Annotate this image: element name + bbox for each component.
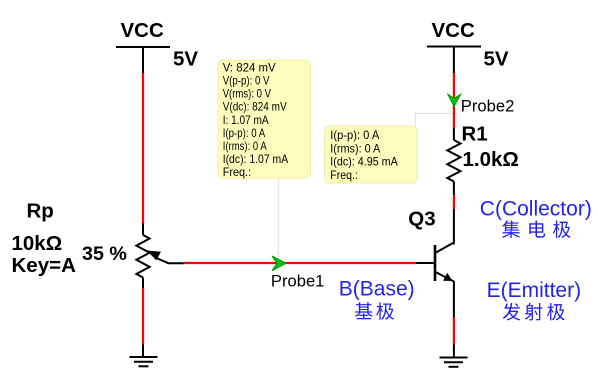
svg-text:V(p-p): 0 V: V(p-p): 0 V — [223, 75, 270, 88]
svg-text:I(p-p): 0 A: I(p-p): 0 A — [223, 127, 266, 140]
svg-text:Q3: Q3 — [408, 207, 435, 230]
svg-text:1.0kΩ: 1.0kΩ — [463, 148, 519, 171]
svg-text:I(rms): 0 A: I(rms): 0 A — [330, 142, 380, 155]
svg-text:I(dc): 1.07 mA: I(dc): 1.07 mA — [223, 153, 289, 166]
svg-text:VCC: VCC — [121, 19, 164, 42]
svg-text:10kΩ: 10kΩ — [12, 232, 63, 255]
svg-text:I(rms): 0 A: I(rms): 0 A — [223, 140, 267, 153]
svg-text:VCC: VCC — [432, 19, 475, 42]
svg-text:E(Emitter): E(Emitter) — [487, 279, 581, 302]
svg-text:R1: R1 — [462, 123, 488, 146]
svg-text:Freq.:: Freq.: — [330, 169, 358, 182]
svg-text:V: 824 mV: V: 824 mV — [223, 62, 276, 75]
svg-text:5V: 5V — [173, 48, 198, 71]
svg-text:35 %: 35 % — [82, 243, 127, 265]
svg-text:Key=A: Key=A — [12, 254, 77, 277]
svg-text:I(p-p): 0 A: I(p-p): 0 A — [330, 129, 379, 142]
svg-text:Probe1: Probe1 — [271, 272, 325, 291]
svg-text:B(Base): B(Base) — [339, 278, 415, 301]
svg-text:Rp: Rp — [27, 199, 54, 222]
svg-text:Freq.:: Freq.: — [223, 166, 251, 179]
svg-text:V(rms): 0 V: V(rms): 0 V — [223, 88, 272, 101]
svg-text:C(Collector): C(Collector) — [480, 197, 592, 220]
svg-text:5V: 5V — [484, 48, 509, 71]
svg-text:I: 1.07 mA: I: 1.07 mA — [223, 114, 269, 127]
svg-text:V(dc): 824 mV: V(dc): 824 mV — [223, 101, 287, 114]
svg-text:Probe2: Probe2 — [461, 97, 515, 116]
svg-text:I(dc): 4.95 mA: I(dc): 4.95 mA — [330, 156, 398, 169]
